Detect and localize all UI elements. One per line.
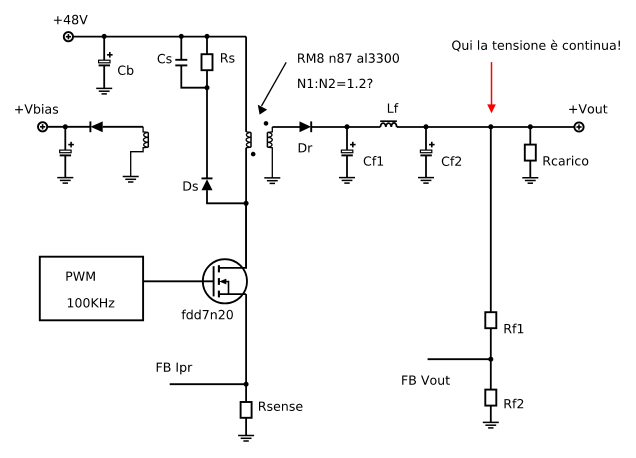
wire Rcarico to ground bbox=[529, 161, 531, 178]
resistor Rs bbox=[202, 54, 213, 70]
label Lf bbox=[388, 103, 399, 113]
ground Rsense bbox=[238, 436, 254, 442]
wire output rail right bbox=[397, 126, 574, 128]
label FB Vout bbox=[402, 376, 450, 385]
transformer T1 primary winding bbox=[246, 132, 251, 148]
wire Rcarico top bbox=[529, 127, 531, 145]
wire Cf2 to ground bbox=[425, 155, 427, 177]
wire Ds anode to drain node bbox=[207, 190, 246, 203]
capacitor Cb bbox=[99, 52, 113, 65]
junction FB Vout node bbox=[488, 357, 493, 362]
label 100KHz bbox=[68, 298, 115, 308]
label Cs bbox=[158, 54, 172, 64]
diode Dbias bbox=[90, 121, 102, 132]
wire Cs column bbox=[180, 37, 182, 60]
label N1:N2=1.2? bbox=[298, 79, 372, 88]
wire source column bbox=[245, 294, 247, 402]
junction Cb tap bbox=[102, 34, 107, 39]
PWM block U1 bbox=[40, 257, 143, 321]
junction Rcarico tap bbox=[528, 124, 533, 129]
label PWM bbox=[66, 272, 95, 281]
annotation arrow to transformer bbox=[258, 62, 286, 114]
wire Dbias to bias winding bbox=[103, 126, 143, 128]
wire snubber node to Ds bbox=[206, 88, 208, 179]
label +Vout bbox=[569, 104, 607, 113]
resistor Rsense bbox=[241, 402, 252, 418]
label FB Ipr bbox=[157, 363, 193, 375]
wire primary top bbox=[245, 37, 247, 132]
wire gate bbox=[143, 280, 214, 282]
wire Cb to ground bbox=[103, 65, 105, 88]
label Cf1 bbox=[364, 156, 383, 166]
wire drain node to mosfet bbox=[245, 203, 247, 268]
ground Cb bbox=[96, 88, 112, 94]
label Rsense bbox=[259, 402, 303, 411]
label RM8 n87 al3300 bbox=[298, 53, 399, 63]
label Ds bbox=[184, 181, 198, 190]
junction feedback tap bbox=[488, 124, 493, 129]
annotation red arrow bbox=[487, 62, 496, 113]
wire Rs top bbox=[206, 37, 208, 55]
resistor Rf2 bbox=[485, 390, 496, 406]
wire feedback column top bbox=[490, 127, 492, 312]
wire Rsense to ground bbox=[245, 418, 247, 436]
wire Cvbias to ground bbox=[64, 155, 66, 177]
label Cb bbox=[118, 65, 133, 75]
junction Cf1 tap bbox=[345, 124, 350, 129]
capacitor Cf2 bbox=[420, 142, 434, 156]
capacitor Cf1 bbox=[341, 142, 355, 156]
transistor Q1 fdd7n20 bbox=[203, 203, 247, 303]
wire Cb column bbox=[103, 37, 105, 61]
wire secondary top to Dr bbox=[272, 126, 299, 128]
inductor Lf bbox=[380, 121, 397, 127]
junction drain node bbox=[244, 201, 249, 206]
wire Cf2 column bbox=[425, 127, 427, 150]
wire Cf1 column bbox=[346, 127, 348, 150]
wire Cs bottom to snubber node bbox=[181, 65, 207, 87]
label +48V bbox=[54, 15, 88, 25]
wire FB Vout stub bbox=[428, 358, 491, 360]
wire FB Ipr stub bbox=[170, 383, 246, 385]
junction Rs tap bbox=[205, 34, 210, 39]
junction Cs tap bbox=[179, 34, 184, 39]
junction Vbias cap tap bbox=[63, 124, 68, 129]
label fdd7n20 bbox=[182, 310, 233, 320]
node +48V terminal bbox=[64, 32, 73, 41]
ground Cvbias bbox=[57, 178, 73, 184]
diode Dr bbox=[300, 121, 312, 132]
label Qui la tensione e continua bbox=[452, 40, 620, 52]
wire primary bottom to drain node bbox=[245, 148, 247, 204]
node primary phase dot bbox=[251, 152, 256, 157]
ground Cf2 bbox=[418, 178, 434, 184]
label Rf2 bbox=[505, 399, 524, 409]
capacitor Cs bbox=[175, 60, 187, 66]
ground Cf1 bbox=[339, 178, 355, 184]
wire Rs bottom bbox=[206, 70, 208, 88]
label +Vbias bbox=[15, 104, 58, 114]
resistor Rcarico bbox=[525, 145, 536, 161]
ground Rcarico bbox=[522, 178, 538, 184]
wire Vbias cap column bbox=[64, 127, 66, 150]
wire FB node to Rf2 bbox=[490, 359, 492, 389]
wire input rail bbox=[73, 36, 246, 38]
junction FB Ipr node bbox=[244, 382, 249, 387]
ground secondary bbox=[264, 178, 280, 184]
wire Rf1 to FB node bbox=[490, 328, 492, 359]
node secondary phase dot bbox=[264, 121, 269, 126]
ground Rf2 bbox=[483, 422, 499, 428]
transformer T1 secondary winding bbox=[267, 127, 272, 178]
junction Cf2 tap bbox=[424, 124, 429, 129]
diode Ds bbox=[202, 178, 213, 190]
junction snubber node bbox=[205, 85, 210, 90]
wire output rail left bbox=[311, 126, 380, 128]
inductor bias winding bbox=[131, 127, 149, 177]
wire Rf2 to ground bbox=[490, 406, 492, 423]
node +Vout terminal bbox=[574, 122, 583, 131]
label Rs bbox=[221, 53, 235, 62]
ground bias winding bbox=[123, 177, 139, 183]
label Cf2 bbox=[442, 156, 461, 166]
label Rf1 bbox=[505, 324, 524, 334]
label Dr bbox=[299, 143, 313, 152]
node +Vbias terminal bbox=[38, 122, 47, 131]
capacitor Cvbias bbox=[60, 142, 74, 156]
label Rcarico bbox=[544, 156, 589, 166]
wire Cf1 to ground bbox=[346, 155, 348, 177]
wire Vbias rail bbox=[47, 126, 90, 128]
resistor Rf1 bbox=[485, 312, 496, 328]
